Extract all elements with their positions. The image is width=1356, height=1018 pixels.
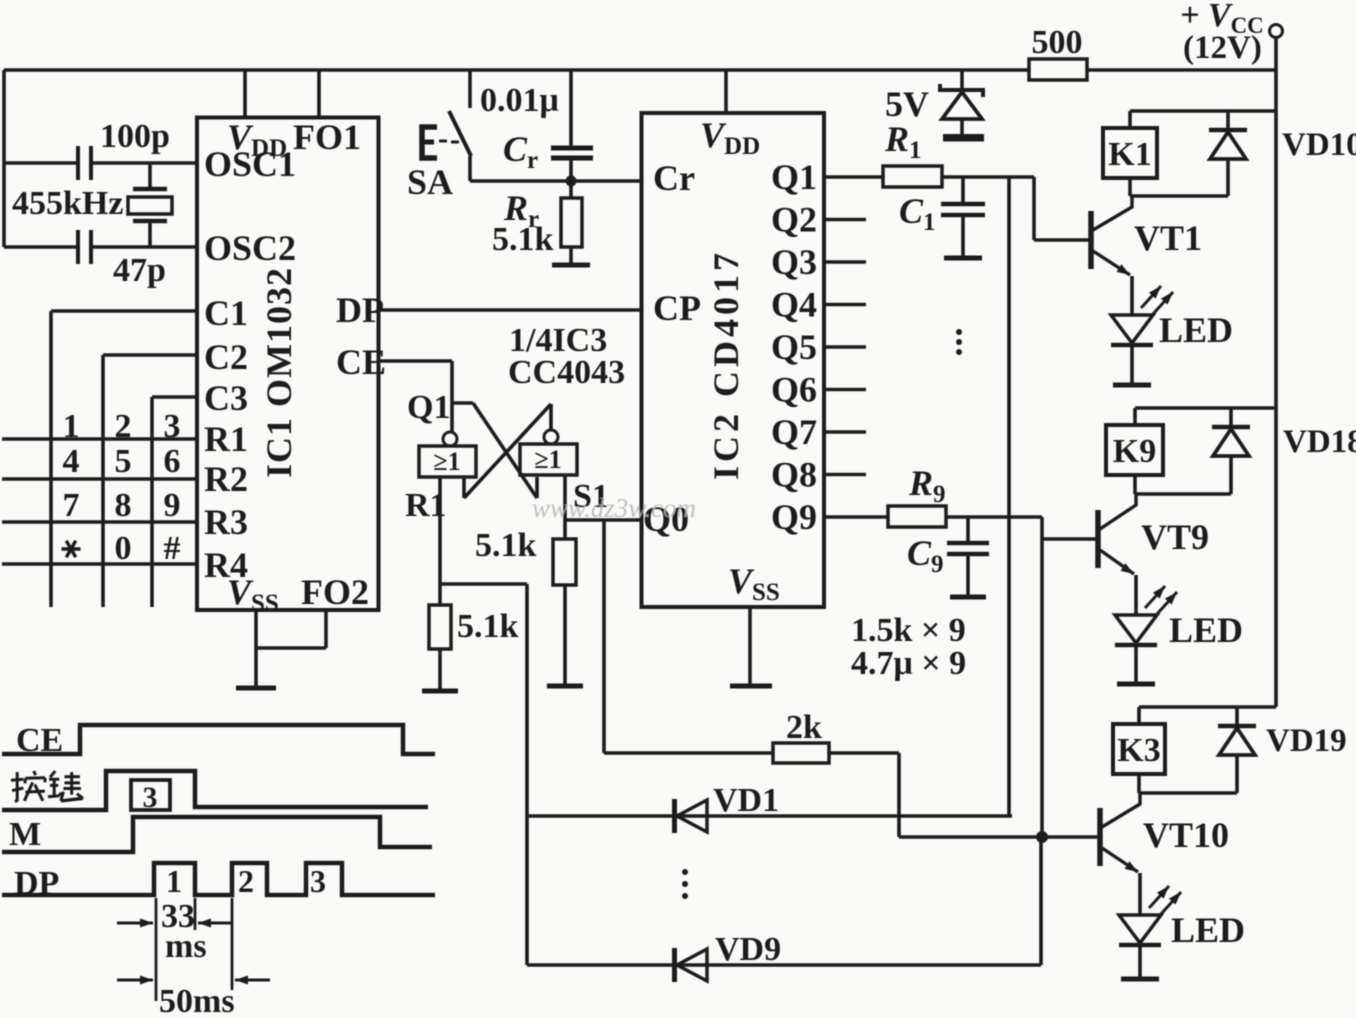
svg-text:5: 5: [115, 443, 132, 480]
svg-text:SA: SA: [407, 162, 453, 202]
svg-text:OSC2: OSC2: [204, 228, 296, 268]
svg-text:500: 500: [1032, 24, 1083, 61]
svg-text:Q5: Q5: [771, 327, 817, 367]
svg-text:VT9: VT9: [1141, 517, 1209, 557]
svg-text:4.7μ × 9: 4.7μ × 9: [851, 645, 966, 682]
svg-text:5.1k: 5.1k: [492, 221, 554, 258]
svg-text:R3: R3: [204, 502, 248, 542]
svg-text:www.dz3w.com: www.dz3w.com: [532, 493, 696, 523]
svg-text:4: 4: [63, 443, 80, 480]
svg-text:6: 6: [164, 443, 181, 480]
svg-text:0.01μ: 0.01μ: [480, 82, 559, 119]
svg-text:7: 7: [63, 487, 80, 524]
svg-text:3: 3: [143, 781, 158, 814]
svg-text:LED: LED: [1159, 310, 1233, 350]
svg-text:≥1: ≥1: [534, 445, 561, 474]
svg-text:Q2: Q2: [771, 200, 817, 240]
svg-text:2k: 2k: [786, 709, 822, 746]
svg-text:Q8: Q8: [771, 455, 817, 495]
svg-text:CP: CP: [653, 288, 701, 328]
svg-text:Q7: Q7: [771, 412, 817, 452]
svg-text:≥1: ≥1: [433, 447, 460, 476]
svg-text:VD19: VD19: [1266, 723, 1347, 759]
svg-text:9: 9: [164, 487, 181, 524]
svg-text:CC4043: CC4043: [508, 354, 625, 391]
svg-text:(12V): (12V): [1183, 30, 1262, 66]
svg-text:3: 3: [164, 408, 181, 445]
svg-text:VT10: VT10: [1143, 815, 1229, 855]
svg-text:3: 3: [310, 863, 326, 899]
svg-text:#: #: [164, 530, 181, 567]
svg-text:2: 2: [238, 863, 254, 899]
svg-text:2: 2: [115, 408, 132, 445]
svg-text:Q1: Q1: [407, 389, 450, 426]
svg-text:100p: 100p: [100, 118, 170, 155]
svg-text:VD9: VD9: [715, 931, 781, 968]
svg-text:M: M: [9, 816, 41, 853]
svg-text:Q4: Q4: [771, 285, 817, 325]
svg-text:FO1: FO1: [293, 117, 361, 157]
svg-text:K9: K9: [1113, 433, 1156, 470]
svg-text:Q3: Q3: [771, 242, 817, 282]
svg-text:0: 0: [115, 530, 132, 567]
svg-text:Q6: Q6: [771, 370, 817, 410]
svg-text:OSC1: OSC1: [204, 144, 296, 184]
svg-text:1: 1: [63, 408, 80, 445]
svg-text:IC2 CD4017: IC2 CD4017: [706, 249, 746, 480]
svg-text:5V: 5V: [885, 84, 929, 124]
svg-text:K1: K1: [1108, 136, 1151, 173]
svg-text:Q9: Q9: [771, 497, 817, 537]
svg-text:C1: C1: [204, 293, 248, 333]
svg-text:Q1: Q1: [771, 157, 817, 197]
svg-text:K3: K3: [1117, 732, 1160, 769]
svg-text:ms: ms: [165, 928, 207, 965]
svg-text:455kHz: 455kHz: [12, 185, 123, 222]
svg-text:47p: 47p: [113, 252, 166, 289]
svg-text:8: 8: [115, 487, 132, 524]
svg-text:VD18: VD18: [1283, 424, 1356, 460]
svg-text:C3: C3: [204, 378, 248, 418]
svg-text:VT1: VT1: [1134, 218, 1202, 258]
svg-text:DP: DP: [336, 290, 384, 330]
svg-text:1: 1: [166, 863, 182, 899]
svg-text:50ms: 50ms: [159, 983, 235, 1013]
svg-text:R1: R1: [204, 419, 248, 459]
svg-text:FO2: FO2: [301, 572, 369, 612]
svg-text:VD10: VD10: [1282, 127, 1356, 163]
svg-text:Cr: Cr: [653, 158, 695, 198]
svg-text:LED: LED: [1171, 910, 1245, 950]
svg-text:LED: LED: [1169, 610, 1243, 650]
svg-text:5.1k: 5.1k: [457, 608, 519, 645]
svg-text:IC1 OM1032: IC1 OM1032: [259, 267, 299, 478]
svg-text:5.1k: 5.1k: [475, 527, 537, 564]
svg-text:C2: C2: [204, 337, 248, 377]
svg-text:VD1: VD1: [713, 782, 779, 819]
svg-text:1.5k × 9: 1.5k × 9: [851, 612, 966, 649]
svg-text:R2: R2: [204, 459, 248, 499]
